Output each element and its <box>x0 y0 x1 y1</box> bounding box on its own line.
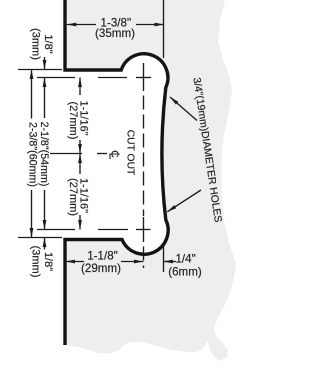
svg-text:2-1/8"(54mm): 2-1/8"(54mm) <box>38 122 50 187</box>
svg-text:(29mm): (29mm) <box>81 262 121 275</box>
svg-text:1-1/8": 1-1/8" <box>87 250 118 263</box>
svg-text:1/8": 1/8" <box>42 252 54 271</box>
svg-text:(6mm): (6mm) <box>168 265 202 278</box>
svg-text:1/4": 1/4" <box>175 253 195 266</box>
svg-text:(3mm): (3mm) <box>29 28 41 60</box>
svg-text:1/8": 1/8" <box>42 34 54 53</box>
svg-text:(27mm): (27mm) <box>67 101 79 139</box>
svg-text:(3mm): (3mm) <box>29 246 41 278</box>
svg-text:(35mm): (35mm) <box>95 27 135 40</box>
svg-text:2-3/8"(60mm): 2-3/8"(60mm) <box>27 122 39 187</box>
svg-text:CUT OUT: CUT OUT <box>125 130 136 176</box>
svg-text:(27mm): (27mm) <box>67 178 79 216</box>
